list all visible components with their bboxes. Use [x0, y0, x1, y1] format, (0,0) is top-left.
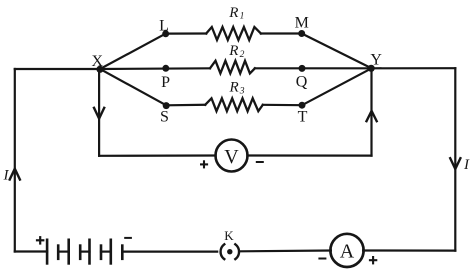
resistor R2 zigzag — [210, 61, 255, 74]
node S dot — [163, 102, 170, 109]
voltmeter plus sign — [200, 160, 208, 168]
svg-text:3: 3 — [239, 86, 245, 96]
wire X to P — [100, 67, 210, 70]
voltmeter minus sign — [256, 161, 264, 163]
svg-text:I: I — [3, 168, 10, 184]
svg-text:L: L — [159, 18, 169, 35]
wire Y to right edge — [372, 67, 456, 69]
wire S to R3 — [166, 104, 205, 107]
node L dot — [162, 30, 169, 37]
wire X to left edge — [15, 68, 100, 70]
ammeter minus sign — [318, 258, 326, 260]
arrow up on Y lead — [367, 111, 377, 121]
svg-text:R: R — [228, 5, 238, 21]
wire Q to Y — [255, 67, 372, 69]
wire ammeter to bottom-right corner — [363, 249, 455, 251]
wire battery to key — [122, 251, 217, 253]
arrow up on left wire (current I) — [10, 169, 20, 180]
battery minus sign — [124, 237, 132, 239]
node Y junction dot — [368, 65, 375, 72]
svg-text:S: S — [160, 109, 169, 126]
wire X to S (diagonal) — [100, 69, 166, 105]
svg-text:I: I — [463, 157, 470, 173]
svg-text:P: P — [161, 74, 170, 91]
wire T to Y (diagonal) — [302, 68, 372, 105]
svg-text:M: M — [295, 14, 309, 31]
key contact dot — [227, 249, 232, 254]
wire R3 to T — [263, 104, 302, 107]
wire voltmeter row right — [247, 154, 371, 156]
wire left vertical — [14, 69, 16, 252]
svg-text:R: R — [228, 43, 238, 59]
wire voltmeter row up to Y — [370, 68, 372, 155]
key K (plug key) — [221, 244, 239, 259]
node M dot — [298, 30, 305, 37]
arrow down on X lead — [94, 108, 104, 119]
ammeter A1 circle — [330, 234, 363, 267]
node Q dot — [299, 65, 306, 72]
node P dot — [162, 65, 169, 72]
svg-text:2: 2 — [240, 50, 245, 60]
svg-text:X: X — [92, 53, 104, 70]
svg-text:Y: Y — [370, 51, 382, 68]
wire L to R1 — [166, 32, 207, 34]
wire M to Y (diagonal) — [302, 34, 372, 69]
arrow down on right wire (current I) — [450, 158, 460, 169]
battery B1 (4 cells) — [47, 240, 122, 264]
wire key to ammeter — [241, 249, 331, 252]
wire X down to voltmeter row — [98, 69, 100, 156]
svg-text:V: V — [224, 146, 239, 168]
svg-text:R: R — [229, 80, 239, 96]
wire R1 to M — [261, 32, 302, 34]
wire right vertical — [454, 68, 456, 250]
ammeter plus sign — [369, 256, 377, 264]
svg-text:Q: Q — [296, 74, 308, 91]
wire bottom-left to battery — [15, 250, 47, 252]
svg-text:1: 1 — [240, 12, 245, 22]
svg-text:T: T — [298, 108, 308, 125]
wire voltmeter row left — [99, 154, 216, 157]
svg-text:A: A — [340, 241, 355, 263]
wire X to L (diagonal) — [100, 34, 166, 69]
node T dot — [299, 102, 306, 109]
resistor R3 zigzag — [205, 98, 263, 111]
node X junction dot — [96, 66, 103, 73]
battery plus sign — [36, 236, 45, 245]
svg-text:K: K — [224, 228, 234, 243]
resistor R1 zigzag — [206, 27, 261, 40]
voltmeter V1 circle — [216, 140, 248, 172]
